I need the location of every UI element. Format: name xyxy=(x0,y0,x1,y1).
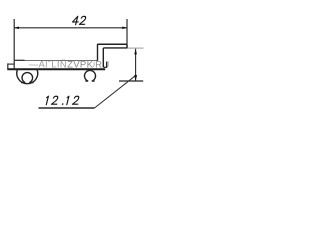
digit 2 of 12.12 xyxy=(52,96,59,104)
arrowhead left of 42 dim xyxy=(14,27,19,30)
digit 2 of 42 xyxy=(79,16,86,24)
extension line top right (gray) xyxy=(128,47,144,49)
dimension underline of 12.12 xyxy=(39,107,95,109)
profile right pocket bottom xyxy=(103,62,106,68)
profile left pocket vertical xyxy=(7,63,9,70)
digit 1 of 12.12 (second) xyxy=(65,96,69,105)
digit 1 of 12.12 xyxy=(45,96,49,105)
leader line to 12.12 xyxy=(95,76,135,108)
profile step vertical outer xyxy=(97,44,99,61)
clip omega (right) xyxy=(85,70,96,81)
arrowhead up of vertical dim xyxy=(134,49,137,55)
profile step second line xyxy=(103,47,127,49)
vertical dimension line xyxy=(135,49,137,81)
digit 4 of 42 xyxy=(72,16,80,25)
dimension text 12.12 xyxy=(45,96,80,105)
digit 2 of 12.12 (second) xyxy=(73,96,80,104)
clip outer shell arc (left) xyxy=(17,70,38,84)
profile left pocket top line xyxy=(8,63,14,65)
profile step vertical inner xyxy=(102,48,104,67)
arrowhead down of vertical dim xyxy=(134,75,137,81)
background xyxy=(0,0,144,129)
profile top surface line xyxy=(14,60,98,62)
arrowhead right of 42 dim xyxy=(122,27,127,30)
profile step top line xyxy=(98,43,128,45)
decimal point of 12.12 xyxy=(62,103,64,105)
profile right end vertical xyxy=(126,44,128,48)
extension line right top (x=127) xyxy=(126,19,128,44)
extension line left (x=14, also profile left edge) xyxy=(13,19,15,70)
profile bottom line (thick) xyxy=(8,68,105,70)
extension line bottom right xyxy=(119,80,143,82)
clip inner omega (left) xyxy=(21,73,34,83)
profile top surface left ledge (darker) xyxy=(14,59,24,61)
dimension text 42 xyxy=(72,16,87,25)
dimension line 42 xyxy=(14,27,127,29)
